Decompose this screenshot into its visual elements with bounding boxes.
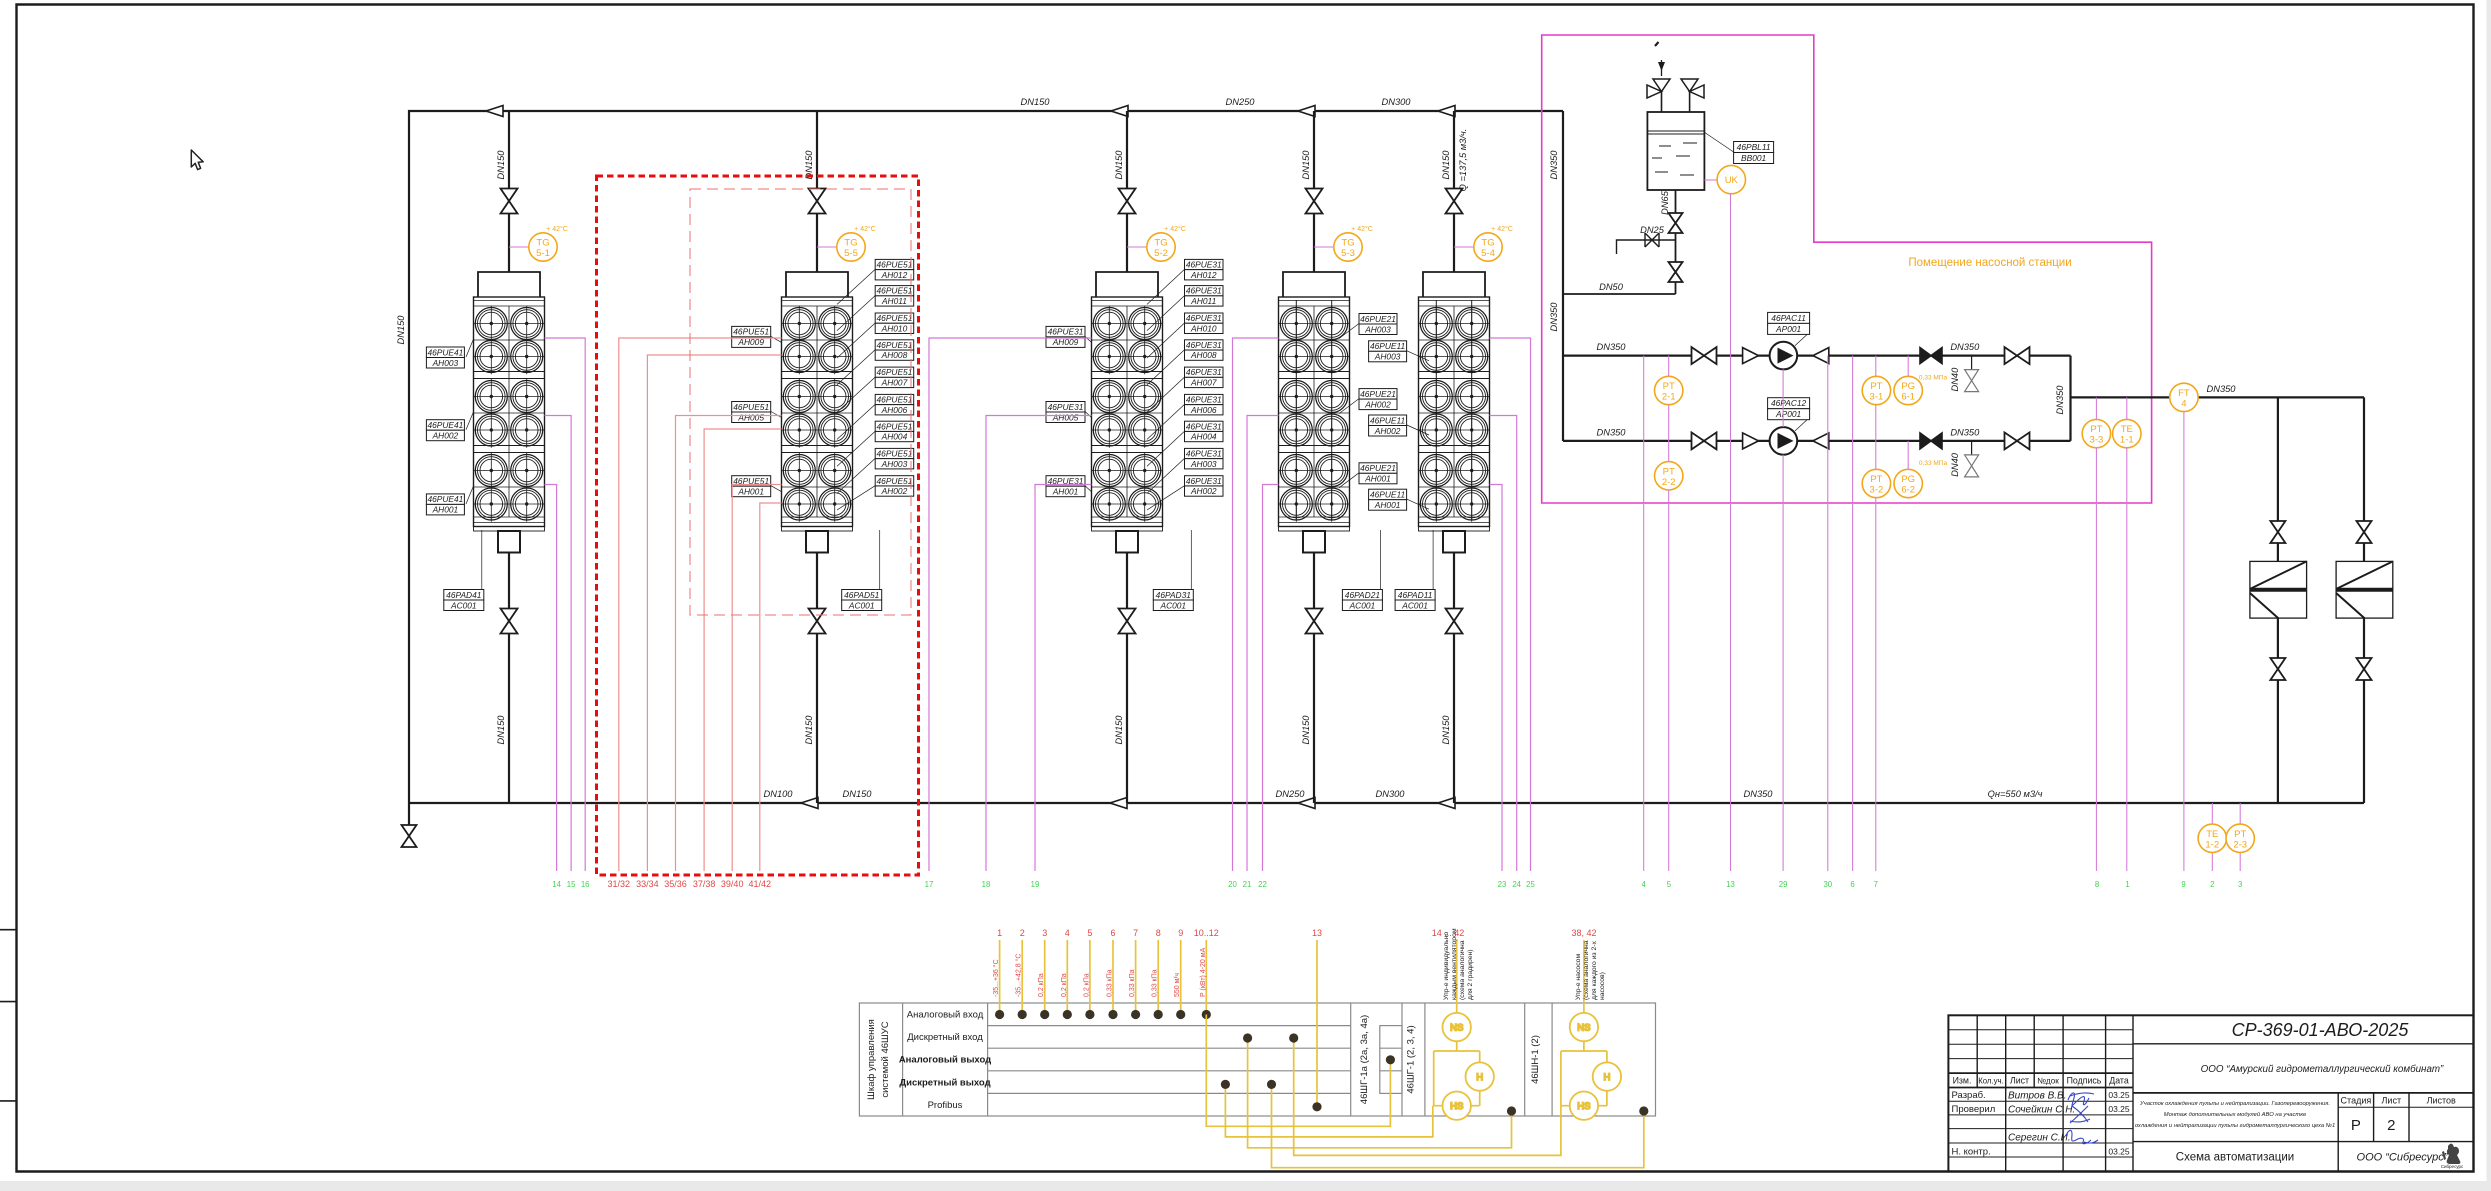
svg-text:PG: PG [1901, 474, 1915, 485]
signal line 4 (line1 tap) [1643, 356, 1645, 871]
svg-text:0,33 кПа: 0,33 кПа [1107, 969, 1114, 997]
reducer pump 2 [1743, 433, 1759, 449]
leader 46PUE51 AH003 [837, 458, 875, 493]
svg-text:AH007: AH007 [1190, 377, 1217, 387]
leader 46PUE31 AH009 [1085, 336, 1092, 342]
svg-text:СР-369-01-АВО-2025: СР-369-01-АВО-2025 [2232, 1020, 2410, 1040]
leader 46PUE31 AH002 [1147, 486, 1185, 510]
leader 46PUE31 AH012 [1147, 269, 1185, 304]
leader line 46PAD unit 3 [1190, 530, 1192, 590]
tank inlet pipe with valve (left) [1662, 91, 1690, 112]
svg-text:PT: PT [2234, 829, 2246, 840]
svg-text:03.25: 03.25 [2108, 1090, 2130, 1100]
svg-text:TE: TE [2206, 829, 2218, 840]
svg-text:22: 22 [1258, 880, 1267, 889]
svg-text:AH002: AH002 [881, 486, 908, 496]
svg-text:3: 3 [1042, 928, 1047, 938]
svg-text:DN65: DN65 [1660, 190, 1670, 215]
leader line 46PAD unit 4 [1379, 530, 1381, 590]
svg-text:AH011: AH011 [1190, 296, 1216, 306]
svg-text:33/34: 33/34 [636, 879, 659, 889]
leader 46PUE51 AH008 [837, 350, 875, 385]
label 46PAD21/AC001 (unit 4 outlet transmitter) [1342, 590, 1382, 611]
wire: signal 14..42 to NS1 [1456, 940, 1458, 1013]
ABO unit 2 body [782, 297, 853, 527]
svg-text:Р: Р [2351, 1117, 2361, 1134]
fan 3R unit 3 [1127, 379, 1162, 414]
fan 5R unit 4 [1314, 453, 1349, 488]
label 46PUE31/AH006 fan unit 3 [1185, 394, 1224, 415]
svg-text:550 м/ч: 550 м/ч [1174, 973, 1181, 997]
svg-text:Витров В.В.: Витров В.В. [2008, 1091, 2066, 1102]
wire: signal 38,42 to NS2 [1583, 940, 1585, 1013]
signal lines unit 1 (to 14,15,16) [545, 338, 586, 871]
svg-text:Сочейкин С.Н.: Сочейкин С.Н. [2008, 1105, 2075, 1116]
fan 6R unit 2 [817, 486, 852, 521]
svg-text:AC001: AC001 [1401, 600, 1428, 610]
mouse cursor [191, 150, 203, 170]
fan 2R unit 5 [1454, 339, 1489, 374]
svg-text:46PUE51: 46PUE51 [877, 286, 913, 296]
fan 2R unit 1 [509, 339, 544, 374]
pressure transmitter PT 3-1 [1862, 376, 1890, 404]
svg-text:DN40: DN40 [1950, 452, 1960, 477]
svg-text:Profibus: Profibus [928, 1100, 963, 1111]
svg-text:46PUE31: 46PUE31 [1186, 367, 1222, 377]
valve on unit 3 riser [1119, 189, 1136, 214]
label 46PUE51/AH005 fan unit 2 [732, 402, 771, 423]
leader 46PUE21 AH003 [1339, 324, 1359, 339]
svg-text:насосов): насосов) [1599, 972, 1606, 1000]
svg-text:HS: HS [1450, 1101, 1463, 1112]
svg-text:46PAC12: 46PAC12 [1771, 398, 1807, 408]
svg-text:AH003: AH003 [1364, 324, 1391, 334]
fan 3L unit 2 [782, 379, 817, 414]
svg-text:46ШГ-1 (2, 3, 4): 46ШГ-1 (2, 3, 4) [1406, 1025, 1417, 1093]
label 46PAD51/AC001 (unit 2 outlet transmitter) [842, 590, 882, 611]
svg-text:DN350: DN350 [1950, 342, 1980, 352]
node: red pair numbers [608, 879, 772, 889]
svg-text:0,2 кПа: 0,2 кПа [1038, 973, 1045, 997]
svg-text:AH005: AH005 [737, 412, 764, 422]
svg-text:Стадия: Стадия [2341, 1096, 2372, 1106]
fan 3R unit 2 [817, 379, 852, 414]
label 46PUE41/AH002 fan unit 1 [426, 420, 464, 441]
valve on unit 2 riser [809, 189, 826, 214]
pressure transmitter PT 3-3 [2082, 419, 2110, 447]
svg-text:46PUE31: 46PUE31 [1048, 402, 1084, 412]
fan 4R unit 1 [509, 412, 544, 447]
svg-text:NS: NS [1450, 1023, 1463, 1034]
signal line 3 (PT2-3) [2239, 803, 2241, 871]
temperature sensor TE 1-1 [2113, 419, 2141, 447]
label 46PAC pump 1 [1795, 334, 1808, 346]
ABO unit 1 bottom header [474, 527, 545, 553]
fan 2L unit 2 [782, 339, 817, 374]
svg-text:4: 4 [1642, 880, 1647, 889]
svg-text:P (кВт) 4-20 мА: P (кВт) 4-20 мА [1200, 947, 1207, 997]
svg-text:PT: PT [1663, 466, 1675, 477]
svg-text:AH008: AH008 [881, 350, 908, 360]
label 46PUE51/AH011 fan unit 2 [875, 286, 914, 307]
leader 46PUE41 AH002 [466, 412, 474, 430]
node: top line arrows [486, 106, 503, 117]
leader 46PUE31 AH005 [1085, 412, 1092, 418]
svg-text:DN250: DN250 [1226, 97, 1256, 107]
svg-text:2: 2 [2387, 1117, 2395, 1134]
ABO cooler unit 3 riser pipe DN150 [1126, 111, 1128, 272]
svg-text:AH012: AH012 [881, 270, 908, 280]
svg-text:46PUE51: 46PUE51 [877, 476, 913, 486]
leader 46PUE51 AH001 [771, 486, 782, 492]
svg-text:DN150: DN150 [396, 315, 406, 345]
ABO unit 4 hood [1283, 272, 1345, 297]
svg-text:Изм.: Изм. [1953, 1076, 1972, 1086]
svg-text:Лист: Лист [2010, 1076, 2029, 1086]
label 46PUE31/AH003 fan unit 3 [1185, 448, 1224, 469]
indication group NS/H/HS section 46ShN-1 [1561, 1013, 1621, 1191]
svg-text:Участок охлаждения пульпы и не: Участок охлаждения пульпы и нейтрализаци… [2139, 1100, 2330, 1107]
svg-text:Помещение насосной станции: Помещение насосной станции [1908, 257, 2071, 269]
signal stub PG6-1 [1907, 356, 1909, 377]
plate heat exchanger 1 [2250, 561, 2307, 618]
svg-text:DN350: DN350 [1597, 342, 1627, 352]
svg-text:20: 20 [1228, 880, 1237, 889]
thermometer TG 5-3 [1314, 225, 1373, 261]
label 46PAD41/AC001 (unit 1 outlet transmitter) [444, 590, 484, 611]
svg-text:46PUE31: 46PUE31 [1186, 449, 1222, 459]
thermometer TG 5-2 [1127, 225, 1186, 261]
svg-text:13: 13 [1726, 880, 1735, 889]
ABO unit 5 body [1419, 297, 1490, 527]
svg-text:DN150: DN150 [1021, 97, 1051, 107]
signal line 9 (FT4) [2183, 412, 2185, 871]
signal line 29 (pumps control) [1782, 369, 1784, 871]
svg-text:+ 42°C: + 42°C [1491, 225, 1513, 233]
leader 46PUE51 AH002 [837, 486, 875, 510]
valve suction pump 1 [1692, 347, 1717, 364]
fan 2L unit 5 [1419, 339, 1454, 374]
wire: discharge line to coolers DN350 [2071, 396, 2365, 398]
valve on unit 2 outlet [809, 609, 826, 634]
fan 3L unit 3 [1092, 379, 1127, 414]
wire: suction header DN350 [1562, 111, 1564, 441]
svg-text:DN350: DN350 [1549, 302, 1559, 332]
leader 46PUE31 AH007 [1147, 377, 1185, 412]
svg-text:Кол.уч.: Кол.уч. [1978, 1077, 2004, 1086]
svg-text:29: 29 [1779, 880, 1788, 889]
leader 46PUE31 AH004 [1147, 431, 1185, 466]
svg-text:AH010: AH010 [881, 323, 908, 333]
label 46PUE21/AH002 fan unit 4 [1359, 389, 1397, 410]
fan 4L unit 4 [1279, 412, 1314, 447]
svg-text:TG: TG [536, 238, 549, 249]
svg-text:AC001: AC001 [450, 600, 477, 610]
svg-text:DN350: DN350 [2207, 384, 2237, 394]
valve on unit 3 outlet [1119, 609, 1136, 634]
svg-text:TG: TG [1154, 238, 1167, 249]
svg-text:1: 1 [997, 928, 1002, 938]
svg-text:Аналоговый выход: Аналоговый выход [899, 1055, 991, 1066]
valve below heat exchanger 2 [2357, 658, 2372, 680]
svg-text:Дискретный вход: Дискретный вход [907, 1032, 983, 1043]
label 46PUE51/AH008 fan unit 2 [875, 340, 914, 361]
svg-text:DN150: DN150 [1301, 150, 1311, 180]
svg-text:37/38: 37/38 [693, 879, 716, 889]
wire: heat exchanger 1 riser [2277, 397, 2279, 803]
svg-text:DN150: DN150 [496, 150, 506, 180]
ABO cooler unit 1 riser pipe DN150 [508, 111, 510, 272]
svg-text:DN150: DN150 [496, 715, 506, 745]
bottom scrollbar strip [0, 1181, 2491, 1191]
svg-text:46PUE31: 46PUE31 [1186, 476, 1222, 486]
signal line 30 [1827, 356, 1829, 871]
svg-text:46PAD21: 46PAD21 [1345, 590, 1380, 600]
svg-text:5-3: 5-3 [1341, 248, 1355, 259]
signal lines unit 5 (to 23,24,25) [1490, 338, 1531, 871]
fan 1R unit 5 [1454, 306, 1489, 341]
left edge revision boxes [0, 930, 17, 1101]
svg-text:46PUE51: 46PUE51 [877, 367, 913, 377]
svg-text:AH008: AH008 [1190, 350, 1217, 360]
svg-text:AH004: AH004 [1190, 432, 1217, 442]
svg-text:UK: UK [1725, 175, 1739, 186]
svg-text:DN300: DN300 [1376, 789, 1406, 799]
svg-text:46PUE51: 46PUE51 [877, 421, 913, 431]
svg-text:AH003: AH003 [432, 358, 459, 368]
fan 4R unit 3 [1127, 412, 1162, 447]
fan 6L unit 2 [782, 486, 817, 521]
label: red rotated note 1 [1443, 928, 1606, 1000]
svg-text:46PUE51: 46PUE51 [733, 327, 769, 337]
level transmitter UK [1704, 165, 1745, 193]
ABO unit 4 outlet pipe [1313, 553, 1315, 804]
svg-text:Лист: Лист [2382, 1096, 2402, 1106]
wire: analog output to 46ShG-1a [1206, 1015, 1390, 1127]
svg-text:охлаждения и нейтрализации пул: охлаждения и нейтрализации пульпы гидром… [2135, 1122, 2335, 1129]
fan 2L unit 3 [1092, 339, 1127, 374]
svg-text:AC001: AC001 [848, 600, 875, 610]
svg-text:DN350: DN350 [1744, 789, 1774, 799]
leader 46PUE51 AH010 [837, 323, 875, 358]
signal line 8 (PT3-3) [2095, 397, 2097, 871]
leader 46PUE11 AH002 [1407, 425, 1429, 435]
signal lines unit 2 new (to 31/32..41/42) [619, 338, 782, 871]
valve on unit 5 outlet [1446, 609, 1463, 634]
ABO unit 5 hood [1423, 272, 1485, 297]
ABO unit 2 bottom header [782, 527, 853, 553]
valve on unit 5 riser [1446, 189, 1463, 214]
svg-text:0,33 МПа: 0,33 МПа [1919, 375, 1948, 382]
wires: analog input signals 1..10/12 [995, 940, 1211, 1019]
valve above heat exchanger 1 [2270, 521, 2285, 543]
svg-text:AH001: AH001 [737, 486, 764, 496]
discharge valve (closed) pump 2 [1920, 433, 1942, 449]
svg-text:AH006: AH006 [1190, 405, 1217, 415]
label 46PUE51/AH009 fan unit 2 [732, 326, 771, 347]
svg-text:DN350: DN350 [1950, 427, 1980, 437]
leader 46PUE51 AH012 [837, 269, 875, 304]
svg-text:3: 3 [2238, 880, 2242, 889]
fan 2R unit 4 [1314, 339, 1349, 374]
svg-text:DN100: DN100 [764, 789, 794, 799]
node: signal line numbers [552, 880, 2242, 889]
signal line 6 [1852, 356, 1854, 871]
svg-text:46PAC11: 46PAC11 [1771, 313, 1806, 323]
svg-text:6: 6 [1110, 928, 1115, 938]
svg-text:21: 21 [1243, 880, 1252, 889]
signal line 2 (TE1-2) [2211, 803, 2213, 871]
svg-text:2-3: 2-3 [2233, 839, 2247, 850]
fan 5L unit 5 [1419, 453, 1454, 488]
fan 1R unit 4 [1314, 306, 1349, 341]
wires: discrete inputs [1248, 1038, 1512, 1148]
svg-text:AH002: AH002 [1364, 399, 1391, 409]
svg-text:46PAD41: 46PAD41 [446, 590, 481, 600]
svg-text:AH004: AH004 [881, 432, 908, 442]
fan 5L unit 1 [474, 453, 509, 488]
valve on unit 4 outlet [1306, 609, 1323, 634]
svg-text:41/42: 41/42 [749, 879, 772, 889]
svg-text:14: 14 [552, 880, 561, 889]
svg-text:(схема аналогична: (схема аналогична [1459, 940, 1466, 1000]
wire: heat exchanger 2 riser [2363, 397, 2365, 803]
leader 46PUE51 AH004 [837, 431, 875, 466]
svg-text:DN150: DN150 [1114, 150, 1124, 180]
svg-text:Q =137,5 м3/ч.: Q =137,5 м3/ч. [1458, 129, 1468, 192]
boundary: inner thin red dashed box [690, 189, 911, 615]
svg-text:AC001: AC001 [1159, 600, 1186, 610]
svg-text:1-1: 1-1 [2120, 435, 2134, 446]
svg-text:системой 46ШУС: системой 46ШУС [880, 1021, 891, 1097]
svg-text:DN150: DN150 [1441, 715, 1451, 745]
thermometer TG 5-1 [509, 225, 568, 261]
discharge valve (closed) pump 1 [1920, 348, 1942, 364]
fan 2R unit 2 [817, 339, 852, 374]
ABO unit 2 hood [786, 272, 848, 297]
svg-text:0,33 кПа: 0,33 кПа [1129, 969, 1136, 997]
svg-text:39/40: 39/40 [721, 879, 744, 889]
svg-text:46PAD31: 46PAD31 [1156, 590, 1191, 600]
svg-text:46PUE31: 46PUE31 [1186, 421, 1222, 431]
fan 3L unit 4 [1279, 379, 1314, 414]
ABO cooler unit 4 riser pipe DN150 [1313, 111, 1315, 272]
valve DN25 (closed cross) [1645, 233, 1659, 247]
fan 1L unit 5 [1419, 306, 1454, 341]
svg-text:46PUE51: 46PUE51 [733, 402, 769, 412]
check valve pump 2 [1813, 433, 1829, 449]
ABO unit 3 body [1092, 297, 1163, 527]
svg-text:5-5: 5-5 [844, 248, 858, 259]
svg-text:BB001: BB001 [1741, 153, 1766, 163]
svg-text:1-2: 1-2 [2205, 839, 2219, 850]
wire: signal 13 to Profibus [1316, 940, 1318, 1107]
valve above heat exchanger 2 [2357, 521, 2372, 543]
svg-text:46PUE41: 46PUE41 [427, 494, 463, 504]
svg-text:46PUE31: 46PUE31 [1048, 327, 1084, 337]
label 46PAD31/AC001 (unit 3 outlet transmitter) [1153, 590, 1193, 611]
svg-text:2: 2 [2210, 880, 2214, 889]
svg-text:HS: HS [1577, 1101, 1590, 1112]
svg-text:DN150: DN150 [1441, 150, 1451, 180]
wire: pump line 2 DN350 [1563, 440, 2071, 442]
label 46PUE11/AH002 fan unit 5 [1369, 415, 1407, 436]
fan 4L unit 5 [1419, 412, 1454, 447]
svg-text:5-1: 5-1 [536, 248, 550, 259]
svg-text:для каждого из 2-х: для каждого из 2-х [1591, 940, 1598, 1000]
svg-text:35/36: 35/36 [664, 879, 687, 889]
wire: pump line 1 DN350 [1563, 355, 2071, 357]
leader 46PUE41 AH003 [466, 339, 474, 357]
fan 1L unit 4 [1279, 306, 1314, 341]
leader 46PUE51 AH009 [771, 336, 782, 342]
isolation valve pump line 2 [2005, 432, 2030, 449]
fan 2R unit 3 [1127, 339, 1162, 374]
svg-text:46PUE31: 46PUE31 [1186, 286, 1222, 296]
indication group NS/H/HS section 46ShG-1 [1434, 1013, 1494, 1191]
svg-text:Листов: Листов [2427, 1096, 2456, 1106]
ABO unit 1 outlet pipe [508, 553, 510, 804]
valve below heat exchanger 1 [2270, 658, 2285, 680]
wire: tank drain DN65 [1675, 190, 1677, 294]
svg-text:3-1: 3-1 [1870, 392, 1884, 403]
ABO unit 1 hood [478, 272, 540, 297]
leader 46PUE21 AH002 [1339, 399, 1359, 414]
svg-text:46PUE41: 46PUE41 [427, 347, 463, 357]
signal lines unit 4 (to 20,21,22) [1233, 338, 1279, 871]
signal stub PG6-2 [1907, 441, 1909, 469]
svg-text:AH001: AH001 [1052, 486, 1079, 496]
svg-text:PT: PT [1870, 381, 1882, 392]
svg-text:46PUE51: 46PUE51 [877, 449, 913, 459]
svg-text:6-1: 6-1 [1901, 392, 1915, 403]
svg-text:17: 17 [925, 880, 934, 889]
ABO unit 1 body [474, 297, 545, 527]
valve on unit 1 outlet [501, 609, 518, 634]
fan 4R unit 4 [1314, 412, 1349, 447]
control cabinet table 46ShUS [859, 1003, 1655, 1116]
svg-text:Н. контр.: Н. контр. [1952, 1147, 1991, 1158]
svg-text:0,33 МПа: 0,33 МПа [1919, 460, 1948, 467]
pressure transmitter PT 2-3 [2226, 824, 2254, 852]
label 46PUE41/AH001 fan unit 1 [426, 494, 464, 515]
svg-text:DN150: DN150 [843, 789, 873, 799]
svg-text:+ 42°C: + 42°C [854, 225, 876, 233]
svg-text:AH009: AH009 [1052, 337, 1079, 347]
fan 3L unit 5 [1419, 379, 1454, 414]
svg-text:DN150: DN150 [1301, 715, 1311, 745]
leader 46PUE31 AH011 [1147, 296, 1185, 331]
svg-text:DN350: DN350 [1597, 427, 1627, 437]
svg-text:FT: FT [2178, 388, 2190, 399]
svg-text:AH011: AH011 [881, 296, 907, 306]
svg-text:9: 9 [2181, 880, 2185, 889]
label 46PUE31/AH011 fan unit 3 [1185, 286, 1224, 307]
svg-text:03.25: 03.25 [2108, 1147, 2130, 1157]
svg-text:PT: PT [2090, 424, 2102, 435]
fan 1L unit 2 [782, 306, 817, 341]
svg-text:AH002: AH002 [1374, 426, 1401, 436]
title block [1948, 1015, 2473, 1171]
valve suction pump 2 [1692, 432, 1717, 449]
leader 46PUE41 AH001 [466, 486, 474, 504]
fan 6L unit 1 [474, 486, 509, 521]
ABO unit 5 bottom header [1419, 527, 1490, 553]
signal line 1 (TE1-1) [2126, 397, 2128, 871]
svg-text:AH005: AH005 [1052, 412, 1079, 422]
fan 1L unit 3 [1092, 306, 1127, 341]
signal lines unit 3 (to 17,18,19) [929, 338, 1092, 871]
